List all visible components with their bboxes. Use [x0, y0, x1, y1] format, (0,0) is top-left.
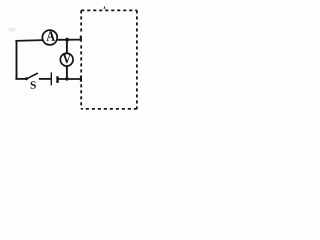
voltmeter label V: [63, 54, 71, 63]
wire switch to battery: [39, 78, 51, 80]
wire bottom-left segment: [15, 78, 26, 80]
dashed box bottom edge: [81, 108, 137, 110]
faint paper smudge top-left: [8, 28, 16, 32]
wire top-left segment: [15, 39, 42, 42]
dashed box left edge middle part: [80, 45, 82, 73]
switch label S: [31, 81, 36, 89]
terminal top at box edge: [80, 36, 82, 42]
node bottom junction: [65, 77, 69, 81]
ammeter label A: [46, 31, 55, 41]
switch S pivot dot: [25, 77, 28, 80]
speck above box: [104, 6, 106, 9]
node top junction: [65, 38, 69, 42]
dashed box left edge upper part: [80, 10, 82, 32]
terminal bottom at box edge: [80, 76, 82, 82]
wire left vertical: [16, 40, 18, 79]
ammeter A: [42, 30, 57, 45]
wire top-right segment: [58, 39, 81, 41]
battery short plate (-): [56, 76, 58, 83]
wire battery to box: [58, 78, 80, 80]
dashed box right edge: [136, 10, 138, 109]
battery long plate (+): [50, 72, 52, 85]
dashed box left edge lower part: [80, 84, 82, 109]
switch S blade: [27, 73, 38, 79]
wire voltmeter bottom lead: [66, 66, 68, 79]
dashed box (device under test) top edge: [81, 9, 137, 11]
wire voltmeter top lead: [66, 40, 68, 54]
voltmeter V: [60, 53, 73, 66]
